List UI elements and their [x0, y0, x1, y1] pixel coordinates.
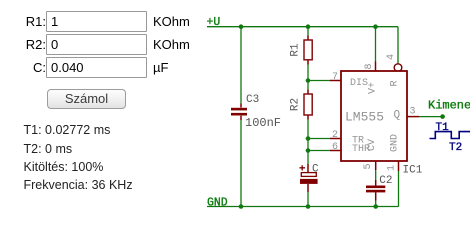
node C junction THR: [306, 148, 311, 153]
wire GND rail: [207, 206, 399, 208]
result duty cycle: [24, 160, 104, 174]
label R2: [290, 98, 302, 111]
svg-text:6: 6: [332, 142, 338, 153]
svg-text:1: 1: [387, 165, 398, 171]
net GND label: [207, 197, 228, 210]
wire cap C to GND rail: [307, 192, 309, 207]
svg-text:DIS: DIS: [350, 78, 368, 89]
wire pin 8 vertical: [375, 27, 377, 62]
svg-text:LM555: LM555: [345, 110, 384, 125]
unit KOhm: [153, 14, 190, 29]
wire DIS horizontal: [308, 80, 330, 82]
input field R1 value 1: [46, 11, 147, 32]
pin 6 stub THR: [330, 150, 341, 152]
node B junction TR: [306, 136, 311, 141]
pin number 3: [410, 107, 416, 118]
node A junction R1/R2/DIS: [306, 78, 311, 83]
svg-text:IC1: IC1: [403, 165, 423, 177]
pin number 6: [332, 142, 338, 153]
value 100nF: [245, 116, 281, 130]
capacitor C2 pin stubs: [375, 180, 377, 201]
label IC1: [403, 165, 423, 177]
svg-text:T2: T2: [449, 142, 462, 154]
resistor R1: [304, 40, 312, 60]
pin number 4: [386, 54, 397, 60]
svg-text:C3: C3: [246, 94, 259, 106]
waveform output square wave: [430, 132, 470, 139]
label C2: [379, 175, 392, 187]
unit microfarad: [153, 60, 168, 75]
pin name GND: [390, 134, 401, 152]
capacitor C3: [231, 108, 247, 116]
button Szamol: [47, 89, 126, 109]
wire pin 4 vertical: [397, 27, 399, 64]
wire node B to node C to cap C: [307, 139, 309, 165]
op-amp IC1 body LM555: [341, 71, 407, 161]
capacitor C pin stubs: [307, 164, 309, 192]
node junction GND / C3: [239, 204, 244, 209]
input field R2 value 0: [46, 34, 147, 55]
pin number 1: [387, 165, 398, 171]
pin 5 stub CV: [375, 161, 377, 170]
capacitor C plus sign: [300, 165, 306, 170]
capacitor C2: [366, 186, 385, 193]
net +U label: [207, 16, 221, 29]
label T1: [436, 122, 450, 134]
svg-text:CV: CV: [367, 139, 378, 151]
unit KOhm: [153, 37, 190, 52]
pin 2 stub TR: [330, 138, 341, 140]
wire Kimenet output: [419, 116, 443, 118]
svg-text:V+: V+: [368, 82, 379, 94]
pin name TR: [352, 136, 364, 147]
svg-text:8: 8: [364, 63, 375, 69]
svg-text:R: R: [390, 80, 401, 86]
pin 8 stub V+: [375, 62, 377, 72]
pin name V+: [368, 82, 379, 94]
label C3: [246, 94, 259, 106]
pin name CV: [367, 139, 378, 151]
svg-text:100nF: 100nF: [245, 116, 281, 130]
svg-text:Q: Q: [394, 110, 401, 122]
node junction top rail / pin 8: [373, 24, 378, 29]
svg-text:C2: C2: [379, 175, 392, 187]
resistor R2: [304, 94, 312, 115]
svg-text:R2: R2: [290, 98, 302, 111]
pin 7 stub DIS: [330, 80, 341, 82]
result T1: [24, 123, 111, 137]
wire THR horizontal: [308, 150, 330, 152]
wire node A to R2: [307, 81, 309, 90]
wire C3 branch vertical: [240, 27, 242, 207]
net Kimenet label: [428, 99, 470, 113]
svg-text:2: 2: [332, 130, 338, 141]
resistor R2 pin stubs: [307, 90, 309, 120]
svg-text:4: 4: [386, 54, 397, 60]
label T2: [449, 142, 462, 154]
pin number 8: [364, 63, 375, 69]
result frequency: [24, 178, 133, 192]
svg-text:GND: GND: [390, 134, 401, 152]
label R1: [290, 43, 302, 57]
pin number 2: [332, 130, 338, 141]
node junction top rail / C3: [239, 24, 244, 29]
result T2: [24, 142, 73, 156]
pin name Q: [394, 110, 401, 122]
wire pin 1 to GND rail: [398, 171, 400, 207]
input label R2: [0, 37, 46, 52]
input field C value 0.040: [46, 57, 147, 78]
label C: [312, 164, 319, 176]
svg-text:GND: GND: [207, 197, 228, 210]
pin number 5: [363, 163, 374, 169]
value LM555: [345, 110, 384, 125]
capacitor C polarized plates: [300, 173, 318, 184]
node junction GND / C2: [373, 204, 378, 209]
svg-text:3: 3: [410, 107, 416, 118]
capacitor C3 pin stubs: [240, 104, 242, 121]
svg-text:5: 5: [363, 163, 374, 169]
pin name R: [390, 80, 401, 86]
pin number 7: [332, 72, 338, 83]
node Kimenet endpoint: [440, 114, 445, 119]
svg-text:R1: R1: [290, 43, 302, 57]
pin 1 stub GND: [398, 161, 400, 171]
pin name THR: [352, 144, 370, 155]
wire R2 to node B: [307, 120, 309, 139]
input label R1: [0, 14, 46, 29]
wire between R1 and node A: [307, 65, 309, 81]
wire pin 5 to C2: [375, 170, 377, 180]
pin name DIS: [350, 78, 368, 89]
resistor R1 pin stubs: [307, 36, 309, 65]
svg-text:Kimenet: Kimenet: [428, 99, 470, 113]
svg-text:7: 7: [332, 72, 338, 83]
pin 3 stub Q: [407, 116, 419, 118]
pin 4 inversion bubble: [394, 64, 402, 72]
wire C2 to GND rail: [375, 201, 377, 207]
wire R column top segment: [307, 27, 309, 36]
node junction top rail / R1: [306, 24, 311, 29]
wire top +U rail: [207, 26, 398, 28]
node junction GND / cap C: [306, 204, 311, 209]
input label C: [0, 60, 46, 75]
wire TR horizontal: [308, 138, 330, 140]
